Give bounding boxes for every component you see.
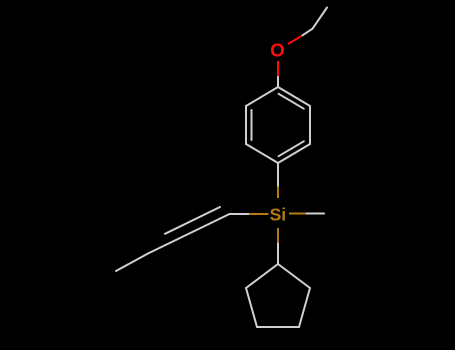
svg-text:O: O xyxy=(270,39,284,60)
svg-text:Si: Si xyxy=(270,205,287,225)
